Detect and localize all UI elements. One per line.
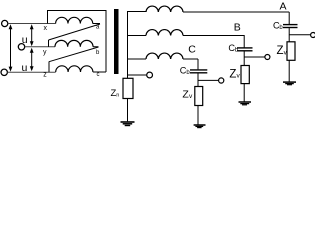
svg-text:b: b: [96, 50, 100, 56]
svg-text:u: u: [22, 34, 28, 46]
svg-text:b: b: [279, 25, 283, 31]
svg-text:x: x: [44, 25, 48, 32]
svg-text:Z: Z: [229, 68, 236, 80]
svg-text:n: n: [116, 92, 119, 98]
svg-text:b: b: [186, 70, 190, 76]
svg-text:B: B: [234, 22, 241, 34]
svg-text:A: A: [280, 1, 287, 13]
svg-text:a: a: [96, 25, 100, 31]
svg-text:Z: Z: [277, 45, 284, 57]
svg-text:u: u: [22, 62, 28, 74]
svg-text:C: C: [188, 44, 196, 56]
svg-text:v: v: [237, 73, 241, 80]
svg-text:c: c: [97, 72, 100, 78]
svg-text:y: y: [43, 49, 47, 56]
svg-text:v: v: [189, 93, 193, 100]
svg-text:z: z: [43, 72, 47, 79]
